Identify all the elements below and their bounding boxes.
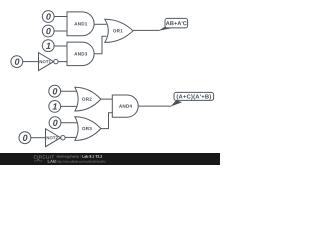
wire AND3 output to OR1 pin2 bbox=[94, 36, 107, 54]
wire C to OR3 pin1 bbox=[61, 122, 77, 124]
wire A to AND1 pin1 bbox=[54, 16, 67, 18]
gate AND1 bbox=[67, 12, 94, 36]
wire NOT1 output to AND3 pin2 bbox=[58, 61, 67, 63]
logic input display A=0 (top) bbox=[42, 11, 54, 23]
gate OR3 bbox=[75, 117, 101, 141]
CircuitLab logo bbox=[34, 155, 54, 158]
wire AND4 output to flag bbox=[138, 105, 171, 107]
logic input display B=0 bbox=[42, 25, 54, 37]
logic input display A=0 (bottom-left) bbox=[19, 132, 31, 144]
footer watermark bar bbox=[0, 153, 220, 165]
wire OR2 output to AND4 pin1 bbox=[101, 98, 112, 100]
wire A to NOT2 input bbox=[31, 137, 46, 139]
wire B to AND1 pin2 bbox=[54, 30, 67, 32]
wire A to NOT1 input bbox=[23, 61, 39, 63]
wire C to AND3 pin1 bbox=[54, 45, 67, 47]
wire OR1 output to flag bbox=[133, 29, 160, 31]
logic input display A=0 (bottom) bbox=[49, 85, 61, 97]
inverter NOT2 bbox=[46, 129, 66, 147]
gate OR1 bbox=[105, 19, 133, 42]
logic input display C=1 bbox=[42, 40, 54, 52]
gate AND4 bbox=[112, 95, 138, 117]
wire B to OR2 pin2 bbox=[61, 105, 78, 107]
logic input display C=0 (bottom) bbox=[49, 117, 61, 129]
inverter NOT1 bbox=[39, 53, 59, 71]
gate AND3 bbox=[67, 42, 94, 66]
footer caption line 2 bbox=[57, 160, 106, 163]
wire OR3 output to AND4 pin2 bbox=[101, 113, 112, 129]
footer caption line 1 bbox=[57, 155, 82, 158]
logic input display B=1 (bottom) bbox=[49, 101, 61, 113]
output flag (A+C)(A'+B) bbox=[171, 92, 214, 106]
wire AND1 output to OR1 pin1 bbox=[94, 23, 106, 25]
wire NOT2 output to OR3 pin2 bbox=[65, 136, 76, 138]
wire A to OR2 pin1 bbox=[61, 90, 77, 92]
logic input display A=0 (left) bbox=[11, 56, 23, 68]
output flag AB+A'C bbox=[158, 18, 187, 30]
gate OR2 bbox=[75, 87, 101, 111]
